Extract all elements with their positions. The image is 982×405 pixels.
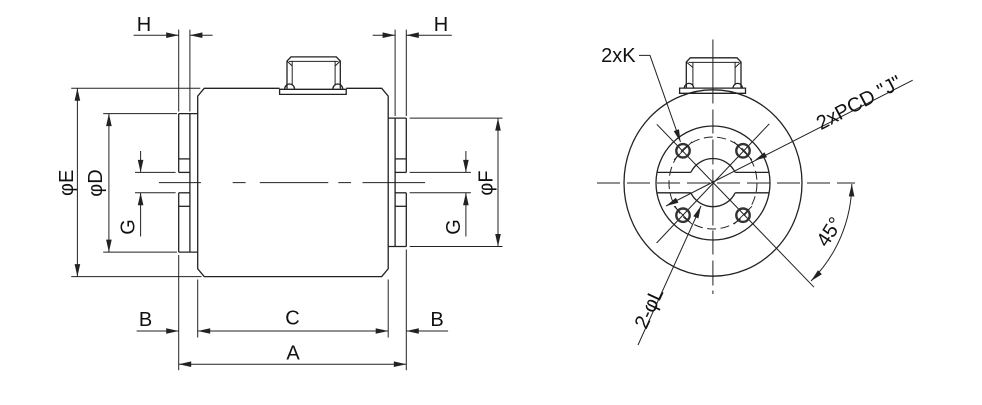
svg-text:H: H [434, 14, 448, 36]
svg-text:G: G [118, 219, 140, 235]
svg-text:φF: φF [476, 170, 498, 195]
svg-text:G: G [443, 219, 465, 235]
svg-text:B: B [139, 309, 152, 331]
svg-text:B: B [430, 309, 443, 331]
svg-text:φD: φD [85, 169, 107, 196]
svg-text:H: H [137, 14, 151, 36]
svg-text:A: A [286, 343, 300, 365]
svg-text:2xK: 2xK [601, 45, 636, 67]
svg-text:φE: φE [56, 170, 78, 196]
svg-text:C: C [285, 308, 299, 330]
